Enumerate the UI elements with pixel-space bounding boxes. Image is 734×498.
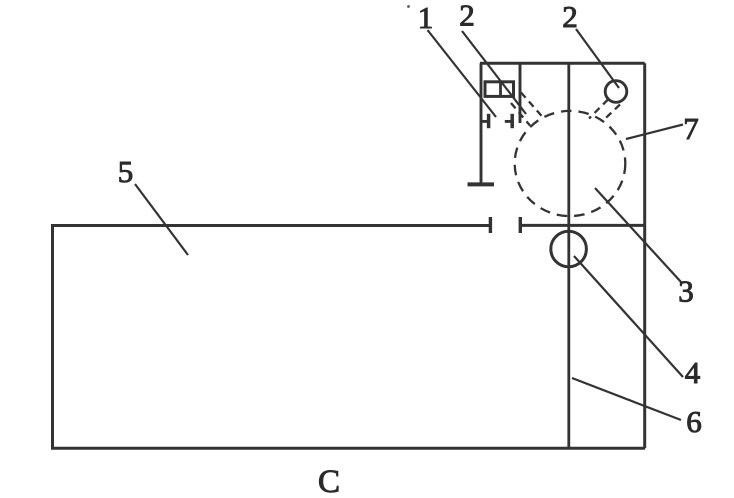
speck near label 1	[407, 5, 410, 8]
right nozzle tick horizontal	[505, 120, 511, 123]
pump circle 4	[551, 231, 587, 267]
svg-text:C: C	[318, 464, 340, 498]
right spray arm dashed left line	[589, 100, 608, 119]
left nozzle tick vertical	[487, 114, 491, 128]
right nozzle tick vertical	[510, 114, 514, 128]
leader line 7	[626, 125, 683, 140]
leader line 4	[574, 256, 683, 377]
svg-text:2: 2	[459, 0, 475, 33]
standpipe foot bar	[468, 182, 495, 186]
nozzle circle 2 (top right)	[605, 81, 627, 103]
leader line 1	[428, 30, 497, 117]
valve box (small divided rectangle)	[485, 82, 514, 97]
right port cap tick	[519, 217, 522, 233]
leader line 5	[135, 184, 188, 255]
svg-text:6: 6	[686, 404, 702, 439]
left spray arm dashed lower line	[511, 103, 530, 126]
leader line 6	[572, 378, 681, 420]
tank 5 outline (big rectangle, open at top-right port)	[53, 226, 646, 449]
inner vertical wall	[519, 63, 522, 123]
svg-text:2: 2	[562, 0, 578, 34]
left nozzle tick horizontal	[481, 120, 487, 123]
svg-text:3: 3	[678, 274, 694, 309]
partition wall y=225.5 right segment	[522, 224, 645, 227]
drum 7 (dashed circle)	[515, 111, 626, 216]
valve box divider	[499, 82, 502, 97]
right spray arm dashed right line	[602, 105, 620, 122]
standpipe 1 (left vertical of housing)	[480, 63, 483, 184]
svg-text:7: 7	[683, 111, 699, 146]
svg-text:1: 1	[418, 0, 434, 35]
left port cap tick	[489, 217, 492, 233]
housing right wall	[643, 63, 646, 448]
svg-text:4: 4	[685, 355, 701, 390]
left spray arm dashed upper line	[521, 93, 543, 118]
svg-text:5: 5	[118, 154, 134, 189]
housing top edge	[480, 62, 645, 65]
shaft line 6 (center vertical)	[567, 63, 570, 448]
leader line 3	[595, 188, 681, 282]
leader line 2 left	[462, 31, 526, 114]
leader line 2 right	[576, 29, 619, 88]
